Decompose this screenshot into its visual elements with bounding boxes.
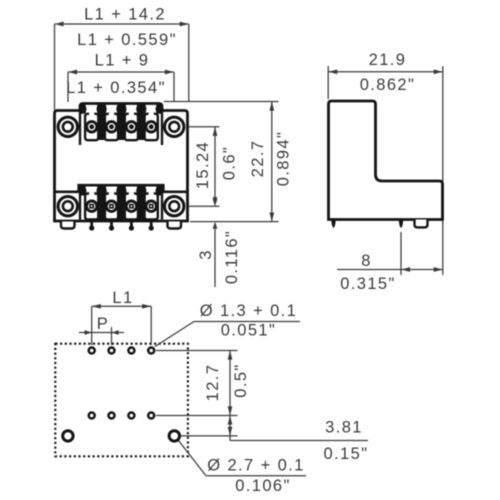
screw 2 top row bbox=[106, 122, 116, 132]
svg-text:0.116": 0.116" bbox=[223, 230, 241, 284]
extension line for 22.7/3 bottom (pcb plane) bbox=[190, 221, 279, 223]
dimension P line with outside arrows bbox=[79, 332, 124, 334]
clamp 1 bottom row bbox=[85, 194, 98, 220]
top terminal row bbox=[81, 105, 161, 141]
footprint big hole right bbox=[169, 431, 179, 441]
bottom row flange screw right bbox=[165, 197, 184, 216]
svg-text:0.315": 0.315" bbox=[340, 275, 396, 293]
hole 4 bottom bbox=[148, 413, 154, 419]
clamp 4 top row bbox=[145, 114, 158, 140]
extension line 3.81 (big hole level) bbox=[181, 435, 238, 437]
footprint big hole left bbox=[63, 431, 73, 441]
screw 3 bottom row bbox=[126, 201, 136, 211]
dimension L1 line bbox=[92, 305, 152, 307]
side view pin middle bbox=[399, 220, 403, 229]
dimension 8 line bbox=[337, 269, 443, 271]
divider bars bottom row bbox=[98, 186, 106, 220]
extension line for 22.7 top (shroud level) bbox=[164, 101, 279, 103]
dimension 15.24 / 0.6" vertical line bbox=[214, 127, 216, 203]
top shroud side walls bbox=[79, 111, 81, 146]
svg-text:0.6": 0.6" bbox=[221, 146, 239, 180]
bottom terminal row bbox=[81, 186, 161, 220]
hole 1 top bbox=[89, 348, 95, 354]
svg-text:L1 + 0.354": L1 + 0.354" bbox=[66, 79, 166, 97]
svg-text:Ø 1.3 + 0.1: Ø 1.3 + 0.1 bbox=[200, 302, 298, 320]
clamp notches bottom row bbox=[89, 191, 94, 196]
dim extension right (x=442.8) long bbox=[442, 66, 444, 275]
dimension 12.7 line bbox=[229, 351, 231, 416]
svg-text:Ø 2.7 + 0.1: Ø 2.7 + 0.1 bbox=[207, 457, 305, 475]
svg-text:15.24: 15.24 bbox=[194, 141, 212, 189]
svg-text:L1: L1 bbox=[112, 289, 133, 307]
leader line dia 1.3 bbox=[155, 322, 194, 347]
svg-text:P: P bbox=[97, 315, 109, 333]
front view solder pins below body bbox=[61, 222, 181, 231]
dimension 22.7 / 0.894" vertical line bbox=[271, 102, 273, 222]
standoff right bbox=[168, 222, 182, 229]
side view pin left bbox=[331, 220, 335, 229]
shroud end wedge right bottom row bbox=[155, 186, 161, 195]
dim extension line right (x=188.8) bbox=[188, 24, 190, 101]
hole 3 top bbox=[128, 348, 134, 354]
leader line dia 2.7 bbox=[179, 441, 207, 476]
footprint hole row 1 bbox=[89, 348, 155, 419]
dimension 3 / 0.116" vertical line with outside arrows bbox=[214, 196, 216, 202]
screw 1 bottom row bbox=[87, 201, 97, 211]
svg-text:12.7: 12.7 bbox=[204, 364, 222, 402]
dim extension hole1 (x=91.7) bbox=[91, 306, 93, 345]
dimension 21.9 line bbox=[328, 71, 443, 73]
dim extension mid pin (x=401) bbox=[400, 232, 402, 275]
shroud end wedge right top row bbox=[155, 105, 161, 114]
shroud end wedge left bottom row bbox=[81, 186, 87, 195]
extension line 12.7 top row bbox=[156, 350, 238, 352]
svg-text:0.15": 0.15" bbox=[324, 445, 369, 463]
bottom row step outline bbox=[55, 185, 188, 192]
screw 3 top row bbox=[126, 122, 136, 132]
pin 1 bbox=[90, 222, 93, 228]
svg-text:21.9: 21.9 bbox=[369, 51, 407, 69]
pcb outline dotted bbox=[55, 344, 188, 457]
dim extension left (x=328.2) bbox=[327, 66, 329, 99]
shroud end wedge left top row bbox=[81, 105, 87, 114]
hole 4 top bbox=[148, 348, 154, 354]
dim extension line flange left (x=68) bbox=[67, 72, 69, 102]
svg-text:0.5": 0.5" bbox=[232, 363, 250, 397]
screw 1 top row bbox=[87, 122, 97, 132]
connector front view body bbox=[55, 104, 188, 222]
svg-text:L1 + 0.559": L1 + 0.559" bbox=[77, 31, 177, 49]
bottom shroud side walls bbox=[79, 185, 81, 219]
svg-text:0.051": 0.051" bbox=[221, 322, 277, 340]
top row flange screw left bbox=[58, 117, 77, 136]
extension line 15.24 bottom (flange center) bbox=[189, 205, 220, 207]
clamp 1 top row bbox=[85, 114, 98, 140]
svg-text:3.81: 3.81 bbox=[325, 419, 363, 437]
bottom row flange screw left bbox=[58, 197, 77, 216]
side view body (L-shape) bbox=[329, 101, 443, 220]
clamp 4 bottom row bbox=[145, 194, 158, 220]
hole 3 bottom bbox=[128, 413, 134, 419]
top row flange screw right bbox=[165, 117, 184, 136]
extension line 12.7 bottom row bbox=[156, 415, 238, 417]
extension line 15.24 top (flange center) bbox=[189, 126, 220, 128]
svg-text:L1 + 9: L1 + 9 bbox=[95, 52, 150, 70]
clamp 2 top row bbox=[105, 114, 118, 140]
clamp 3 top row bbox=[125, 114, 138, 140]
dim extension hole4 (x=151.2) bbox=[150, 306, 152, 345]
screw 4 top row bbox=[146, 122, 156, 132]
hole 1 bottom bbox=[89, 413, 95, 419]
dimension L1 + 9 line bbox=[68, 71, 174, 73]
svg-text:0.862": 0.862" bbox=[360, 76, 416, 94]
screw 2 bottom row bbox=[106, 201, 116, 211]
svg-text:22.7: 22.7 bbox=[249, 140, 267, 178]
dim extension line flange right (x=174) bbox=[173, 72, 175, 102]
hole 2 top bbox=[109, 348, 115, 354]
dimension 3.81 line bbox=[229, 416, 231, 436]
hole 2 bottom bbox=[109, 413, 115, 419]
pin 3 bbox=[130, 222, 133, 228]
clamp 3 bottom row bbox=[125, 194, 138, 220]
side view standoff tab bbox=[415, 220, 428, 228]
dim extension hole2 (x=111.5) bbox=[111, 327, 113, 345]
polarization tabs bottom row bbox=[96, 186, 106, 195]
clamp notches top row bbox=[89, 111, 94, 116]
divider bars top row bbox=[98, 105, 106, 141]
pin 4 bbox=[150, 222, 153, 228]
standoff left bbox=[61, 222, 75, 229]
pin 2 bbox=[110, 222, 113, 228]
svg-text:0.894": 0.894" bbox=[275, 131, 293, 187]
dim extension line left (x=54.6) bbox=[54, 24, 56, 110]
svg-text:0.106": 0.106" bbox=[235, 477, 291, 495]
clamp 2 bottom row bbox=[105, 194, 118, 220]
polarization tabs top row bbox=[96, 105, 106, 114]
screw 4 bottom row bbox=[146, 201, 156, 211]
body outline bbox=[55, 104, 188, 222]
svg-text:3: 3 bbox=[197, 249, 215, 260]
dimension L1 + 14.2 line bbox=[55, 23, 189, 25]
svg-text:8: 8 bbox=[361, 252, 372, 270]
svg-text:L1 + 14.2: L1 + 14.2 bbox=[84, 6, 166, 24]
